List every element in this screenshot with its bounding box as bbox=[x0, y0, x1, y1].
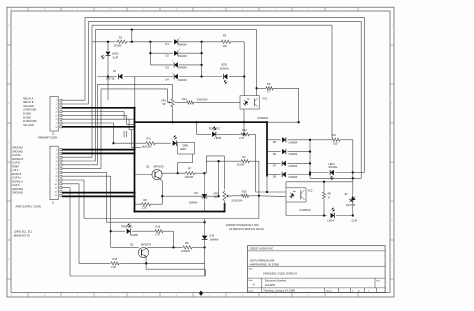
junction bbox=[133, 126, 135, 128]
svg-text:FA901/901-1/1201 DISPLAY: FA901/901-1/1201 DISPLAY bbox=[263, 271, 297, 275]
junction bbox=[309, 139, 311, 141]
wire bbox=[92, 41, 115, 43]
junction bbox=[107, 41, 109, 43]
wire bbox=[310, 177, 361, 179]
svg-text:A GROUND: A GROUND bbox=[23, 109, 36, 112]
wire bbox=[157, 142, 171, 144]
wire bbox=[150, 64, 173, 66]
wire bbox=[257, 87, 264, 89]
svg-text:CLIP A-: CLIP A- bbox=[12, 184, 21, 187]
svg-text:10: 10 bbox=[43, 9, 45, 11]
wire bbox=[123, 112, 125, 120]
svg-text:XC2: XC2 bbox=[308, 188, 314, 192]
svg-text:R15: R15 bbox=[242, 189, 247, 193]
junction bbox=[203, 221, 205, 223]
svg-text:5: 5 bbox=[209, 9, 210, 11]
junction bbox=[133, 148, 135, 150]
svg-text:Q2: Q2 bbox=[130, 242, 134, 246]
svg-text:MPSA75: MPSA75 bbox=[141, 242, 152, 246]
svg-text:VR1: VR1 bbox=[161, 98, 167, 102]
diode D10 bbox=[204, 219, 206, 248]
wire bbox=[135, 203, 141, 205]
svg-text:SIGNAL B: SIGNAL B bbox=[12, 158, 24, 161]
junction bbox=[133, 191, 135, 193]
wire bbox=[62, 179, 84, 181]
wire bbox=[149, 42, 151, 65]
svg-text:3.92K/1%: 3.92K/1% bbox=[197, 98, 209, 102]
wire bbox=[89, 20, 362, 22]
svg-text:A: A bbox=[253, 283, 255, 287]
wire bbox=[62, 107, 135, 109]
resistor R5 bbox=[264, 87, 275, 90]
junction bbox=[243, 75, 245, 77]
svg-text:2: 2 bbox=[308, 9, 309, 11]
junction bbox=[266, 191, 268, 193]
resistor R15 bbox=[240, 194, 251, 197]
wire bbox=[232, 195, 240, 197]
wire bbox=[146, 268, 205, 270]
wire bbox=[243, 42, 245, 96]
wire bbox=[121, 262, 205, 264]
wire bbox=[127, 123, 135, 125]
wire bbox=[98, 76, 118, 78]
wire bbox=[172, 108, 174, 122]
LED LED7 bbox=[173, 141, 177, 146]
junction bbox=[177, 172, 179, 174]
wire bbox=[179, 76, 202, 78]
wire bbox=[267, 174, 281, 176]
svg-text:CLIP: CLIP bbox=[352, 218, 358, 222]
svg-text:2: 2 bbox=[179, 49, 180, 51]
LED LED2 bbox=[330, 170, 334, 175]
resistor R6 bbox=[181, 246, 194, 249]
junction bbox=[107, 75, 109, 77]
wire bbox=[85, 16, 364, 18]
wire bbox=[194, 246, 205, 248]
svg-text:9: 9 bbox=[77, 295, 78, 297]
svg-text:SIGNAL: SIGNAL bbox=[220, 67, 230, 71]
wire bbox=[96, 29, 257, 31]
svg-text:21A1005: 21A1005 bbox=[265, 284, 276, 287]
wire bbox=[113, 123, 115, 143]
wire bbox=[251, 195, 259, 197]
wire bbox=[84, 218, 259, 220]
diode D1 bbox=[174, 39, 178, 44]
LED LED4 bbox=[331, 213, 335, 218]
wire bbox=[259, 195, 286, 198]
wire bbox=[224, 203, 226, 212]
svg-text:GRN: GRN bbox=[183, 143, 189, 147]
resistor R4 bbox=[330, 138, 342, 141]
junction bbox=[131, 41, 133, 43]
wire bbox=[352, 140, 354, 193]
svg-text:D4: D4 bbox=[166, 78, 170, 82]
svg-text:1N4004: 1N4004 bbox=[178, 78, 188, 82]
wire bbox=[205, 156, 207, 173]
svg-text:TEMP/OC: TEMP/OC bbox=[209, 127, 221, 131]
svg-text:11: 11 bbox=[11, 295, 13, 297]
svg-text:D10: D10 bbox=[210, 234, 215, 238]
wire bbox=[323, 182, 325, 191]
wire bbox=[146, 247, 148, 248]
wire bbox=[62, 99, 85, 101]
svg-text:2.2K: 2.2K bbox=[111, 265, 117, 269]
svg-text:TEMP: TEMP bbox=[12, 165, 19, 168]
svg-text:LED8: LED8 bbox=[215, 136, 222, 140]
wire bbox=[336, 172, 353, 174]
svg-text:1N4004: 1N4004 bbox=[288, 164, 298, 168]
junction bbox=[200, 64, 202, 66]
svg-text:LED4: LED4 bbox=[328, 218, 335, 222]
wire bbox=[258, 161, 260, 196]
wire bbox=[178, 142, 195, 154]
svg-text:100 FLORENCE AVE: 100 FLORENCE AVE bbox=[250, 258, 275, 262]
diode D2 bbox=[174, 51, 178, 56]
svg-text:3.92K/1%: 3.92K/1% bbox=[231, 199, 243, 203]
svg-text:R14: R14 bbox=[182, 97, 187, 101]
svg-text:1: 1 bbox=[172, 61, 173, 63]
svg-text:4: 4 bbox=[242, 295, 243, 297]
wire bbox=[179, 64, 202, 66]
junction bbox=[110, 230, 112, 232]
wire bbox=[100, 89, 102, 169]
svg-text:CLM6010: CLM6010 bbox=[257, 116, 269, 120]
wire bbox=[243, 109, 245, 134]
wire bbox=[206, 160, 239, 162]
svg-text:5K: 5K bbox=[163, 102, 166, 106]
svg-text:B GND: B GND bbox=[23, 116, 31, 119]
svg-text:MPSA75: MPSA75 bbox=[154, 164, 165, 168]
svg-text:R2: R2 bbox=[223, 34, 227, 38]
svg-text:CLIP B+: CLIP B+ bbox=[12, 154, 22, 157]
wire bbox=[62, 175, 111, 177]
svg-text:6: 6 bbox=[176, 9, 177, 11]
wire bbox=[174, 101, 185, 103]
wire bbox=[62, 118, 129, 120]
svg-text:100/1W: 100/1W bbox=[185, 175, 194, 179]
resistor R2 bbox=[220, 40, 233, 43]
resistor R6b bbox=[322, 191, 325, 201]
wire bbox=[206, 155, 224, 157]
junction bbox=[200, 75, 202, 77]
wire bbox=[135, 211, 225, 213]
wire bbox=[92, 24, 332, 26]
svg-text:R3: R3 bbox=[242, 155, 246, 159]
svg-text:CLIP B-: CLIP B- bbox=[12, 162, 21, 165]
svg-text:TIL03B: TIL03B bbox=[130, 233, 139, 237]
junction bbox=[243, 121, 245, 123]
wire bbox=[352, 204, 354, 216]
junction bbox=[200, 52, 202, 54]
wire bbox=[331, 25, 333, 138]
junction bbox=[309, 162, 311, 164]
wire bbox=[111, 246, 139, 248]
wire bbox=[197, 133, 212, 135]
wire bbox=[223, 156, 225, 189]
junction bbox=[133, 121, 135, 123]
wire bbox=[204, 247, 206, 276]
svg-text:CLM6010: CLM6010 bbox=[300, 208, 312, 212]
svg-text:PWR SUPPLY CONN: PWR SUPPLY CONN bbox=[16, 205, 41, 209]
svg-text:2: 2 bbox=[172, 73, 173, 75]
svg-text:VR2: VR2 bbox=[213, 191, 219, 195]
wire bbox=[129, 41, 172, 43]
svg-text:D3: D3 bbox=[166, 65, 170, 69]
svg-text:D1: D1 bbox=[166, 42, 170, 46]
LED LED1 bbox=[224, 74, 228, 79]
svg-text:3: 3 bbox=[275, 9, 276, 11]
diode D7 bbox=[282, 161, 286, 166]
wire bbox=[62, 164, 98, 166]
wire bbox=[62, 126, 135, 128]
wire bbox=[111, 230, 125, 232]
junction bbox=[323, 181, 325, 183]
wire bbox=[131, 130, 133, 148]
wire bbox=[202, 76, 222, 78]
svg-text:1N4004: 1N4004 bbox=[288, 152, 298, 156]
svg-text:B GROUND: B GROUND bbox=[23, 120, 36, 123]
svg-text:11: 11 bbox=[11, 9, 13, 11]
wire bbox=[83, 180, 85, 219]
wire bbox=[196, 122, 198, 134]
resistor R13 bbox=[153, 230, 165, 233]
svg-text:13/8/92 ECL, ECL: 13/8/92 ECL, ECL bbox=[14, 232, 33, 234]
wire bbox=[69, 188, 71, 276]
svg-text:2.7K: 2.7K bbox=[155, 233, 161, 237]
svg-text:HAWTHORNE, NJ 07506: HAWTHORNE, NJ 07506 bbox=[250, 262, 280, 266]
svg-text:100: 100 bbox=[333, 142, 338, 146]
wire bbox=[145, 257, 147, 270]
svg-text:1N4004: 1N4004 bbox=[288, 140, 298, 144]
svg-text:D9: D9 bbox=[195, 191, 199, 195]
junction bbox=[309, 150, 311, 152]
resistor R12 bbox=[239, 133, 251, 136]
wire bbox=[162, 172, 185, 174]
svg-text:XC1: XC1 bbox=[262, 97, 268, 101]
wire bbox=[267, 162, 281, 164]
junction bbox=[161, 195, 163, 197]
svg-text:2: 2 bbox=[308, 295, 309, 297]
wire bbox=[229, 76, 244, 78]
svg-text:5: 5 bbox=[209, 295, 210, 297]
svg-text:R4: R4 bbox=[333, 133, 337, 137]
wire bbox=[62, 122, 114, 124]
junction bbox=[217, 160, 219, 162]
svg-text:1N4735: 1N4735 bbox=[106, 77, 116, 81]
svg-text:1: 1 bbox=[341, 9, 342, 11]
wire bbox=[62, 195, 135, 197]
junction bbox=[217, 195, 219, 197]
wire bbox=[79, 262, 109, 264]
wire bbox=[62, 160, 96, 162]
junction bbox=[195, 121, 197, 123]
svg-text:LED1: LED1 bbox=[221, 63, 228, 67]
wire bbox=[124, 118, 134, 120]
wire bbox=[62, 192, 135, 194]
svg-text:R1: R1 bbox=[119, 36, 123, 40]
wire bbox=[285, 182, 287, 188]
wire bbox=[286, 215, 327, 217]
junction bbox=[255, 87, 257, 89]
wire bbox=[107, 55, 109, 100]
wire bbox=[288, 162, 311, 164]
svg-text:R13: R13 bbox=[156, 225, 161, 229]
junction bbox=[171, 121, 173, 123]
title block bbox=[247, 246, 385, 293]
wire bbox=[107, 42, 109, 51]
svg-text:TEMP/OC: TEMP/OC bbox=[121, 224, 133, 228]
potentiometer VR1 bbox=[171, 97, 174, 108]
wire bbox=[134, 77, 136, 108]
svg-text:SIGNAL: SIGNAL bbox=[328, 165, 338, 169]
wire bbox=[256, 30, 258, 96]
svg-text:Document Number: Document Number bbox=[265, 279, 287, 283]
svg-text:RELAY B: RELAY B bbox=[23, 101, 33, 104]
wire bbox=[107, 221, 205, 223]
svg-text:SIG GND: SIG GND bbox=[23, 124, 34, 127]
resistor R16 bbox=[109, 262, 121, 265]
resistor R8 bbox=[140, 203, 153, 206]
svg-text:AS PER ECO 9518 R14 VALUE: AS PER ECO 9518 R14 VALUE bbox=[229, 228, 264, 231]
svg-text:D5: D5 bbox=[273, 140, 277, 144]
svg-text:R5: R5 bbox=[267, 82, 271, 86]
svg-text:LED7: LED7 bbox=[180, 147, 187, 151]
svg-text:R6: R6 bbox=[328, 191, 332, 195]
svg-text:PREAMP CONN: PREAMP CONN bbox=[38, 135, 57, 139]
wire bbox=[218, 161, 220, 196]
diode D8 bbox=[282, 172, 286, 177]
junction bbox=[223, 210, 225, 212]
junction bbox=[258, 195, 260, 197]
diode D9 bbox=[203, 173, 205, 211]
svg-text:1N4004: 1N4004 bbox=[189, 200, 199, 204]
wire bbox=[178, 162, 193, 164]
svg-text:D8: D8 bbox=[273, 175, 277, 179]
wire bbox=[255, 191, 286, 193]
svg-text:100/1W: 100/1W bbox=[181, 249, 190, 253]
junction bbox=[352, 214, 354, 216]
svg-text:R12: R12 bbox=[242, 128, 247, 132]
wire bbox=[132, 230, 153, 232]
wire bbox=[62, 103, 89, 105]
junction bbox=[133, 210, 135, 212]
junction bbox=[200, 41, 202, 43]
wire bbox=[363, 17, 365, 172]
svg-text:5K: 5K bbox=[214, 195, 217, 199]
wire bbox=[84, 17, 86, 100]
wire bbox=[258, 196, 260, 219]
wire bbox=[360, 21, 362, 178]
wire bbox=[286, 181, 353, 183]
junction bbox=[133, 152, 135, 154]
svg-text:1N4004: 1N4004 bbox=[288, 175, 298, 179]
svg-text:GROUND: GROUND bbox=[12, 188, 23, 191]
wire bbox=[128, 119, 130, 130]
svg-text:1N4004: 1N4004 bbox=[178, 66, 188, 70]
wire bbox=[254, 134, 256, 192]
wire bbox=[149, 246, 182, 248]
junction bbox=[323, 214, 325, 216]
wire bbox=[266, 122, 268, 176]
wire bbox=[165, 230, 174, 232]
svg-text:8: 8 bbox=[110, 9, 111, 11]
wire bbox=[223, 202, 225, 212]
svg-text:1N4735: 1N4735 bbox=[346, 203, 356, 207]
junction bbox=[133, 107, 135, 109]
svg-text:11/03/95 CHANGED R13, R15: 11/03/95 CHANGED R13, R15 bbox=[226, 224, 260, 227]
svg-text:4: 4 bbox=[242, 9, 243, 11]
junction bbox=[112, 142, 114, 144]
wire bbox=[88, 21, 90, 104]
svg-text:1: 1 bbox=[179, 38, 180, 40]
diode D5 bbox=[282, 137, 286, 142]
svg-text:B GND: B GND bbox=[23, 113, 31, 116]
wire bbox=[70, 275, 205, 277]
junction bbox=[149, 52, 151, 54]
junction bbox=[203, 172, 205, 174]
wire bbox=[267, 139, 281, 141]
wire bbox=[150, 52, 173, 54]
diode D6 bbox=[282, 149, 286, 154]
wire bbox=[114, 142, 145, 144]
wire bbox=[62, 183, 79, 185]
svg-text:2.2K: 2.2K bbox=[142, 206, 148, 210]
wire bbox=[217, 133, 239, 135]
svg-text:1N4004: 1N4004 bbox=[178, 54, 188, 58]
junction bbox=[145, 262, 147, 264]
zener Z4 bbox=[352, 193, 354, 205]
wire bbox=[160, 179, 163, 182]
wire bbox=[124, 76, 173, 78]
svg-text:9: 9 bbox=[77, 9, 78, 11]
junction bbox=[172, 246, 174, 248]
wire bbox=[310, 139, 330, 141]
wire bbox=[232, 41, 244, 43]
wire bbox=[91, 25, 93, 157]
transistor Q2 bbox=[138, 247, 148, 257]
junction bbox=[297, 121, 299, 123]
wire bbox=[201, 42, 203, 77]
junction bbox=[199, 291, 203, 296]
wire bbox=[192, 154, 194, 163]
wire bbox=[95, 30, 97, 161]
svg-text:SIGNAL A: SIGNAL A bbox=[12, 180, 23, 183]
svg-text:3: 3 bbox=[275, 295, 276, 297]
potentiometer VR2 bbox=[223, 190, 226, 202]
wire bbox=[251, 160, 259, 162]
svg-text:CREST AUDIO INC: CREST AUDIO INC bbox=[250, 246, 274, 250]
wire bbox=[167, 89, 169, 102]
wire bbox=[126, 115, 128, 124]
wire bbox=[204, 269, 206, 276]
svg-text:D2: D2 bbox=[166, 54, 170, 58]
svg-text:1K/0.5W: 1K/0.5W bbox=[142, 144, 152, 148]
wire bbox=[62, 168, 101, 170]
wire bbox=[161, 171, 163, 173]
wire bbox=[62, 111, 124, 113]
svg-text:LED3: LED3 bbox=[112, 52, 119, 56]
wire bbox=[110, 176, 112, 247]
optocoupler XC1 bbox=[240, 96, 260, 109]
wire bbox=[179, 41, 220, 43]
wire bbox=[309, 140, 311, 179]
svg-text:MUTE B: MUTE B bbox=[12, 173, 22, 176]
LED LED8 bbox=[212, 132, 216, 137]
svg-text:1N4004: 1N4004 bbox=[210, 237, 220, 241]
wire bbox=[62, 114, 127, 116]
LED LED3 bbox=[106, 52, 111, 56]
svg-text:Q1: Q1 bbox=[146, 164, 150, 168]
